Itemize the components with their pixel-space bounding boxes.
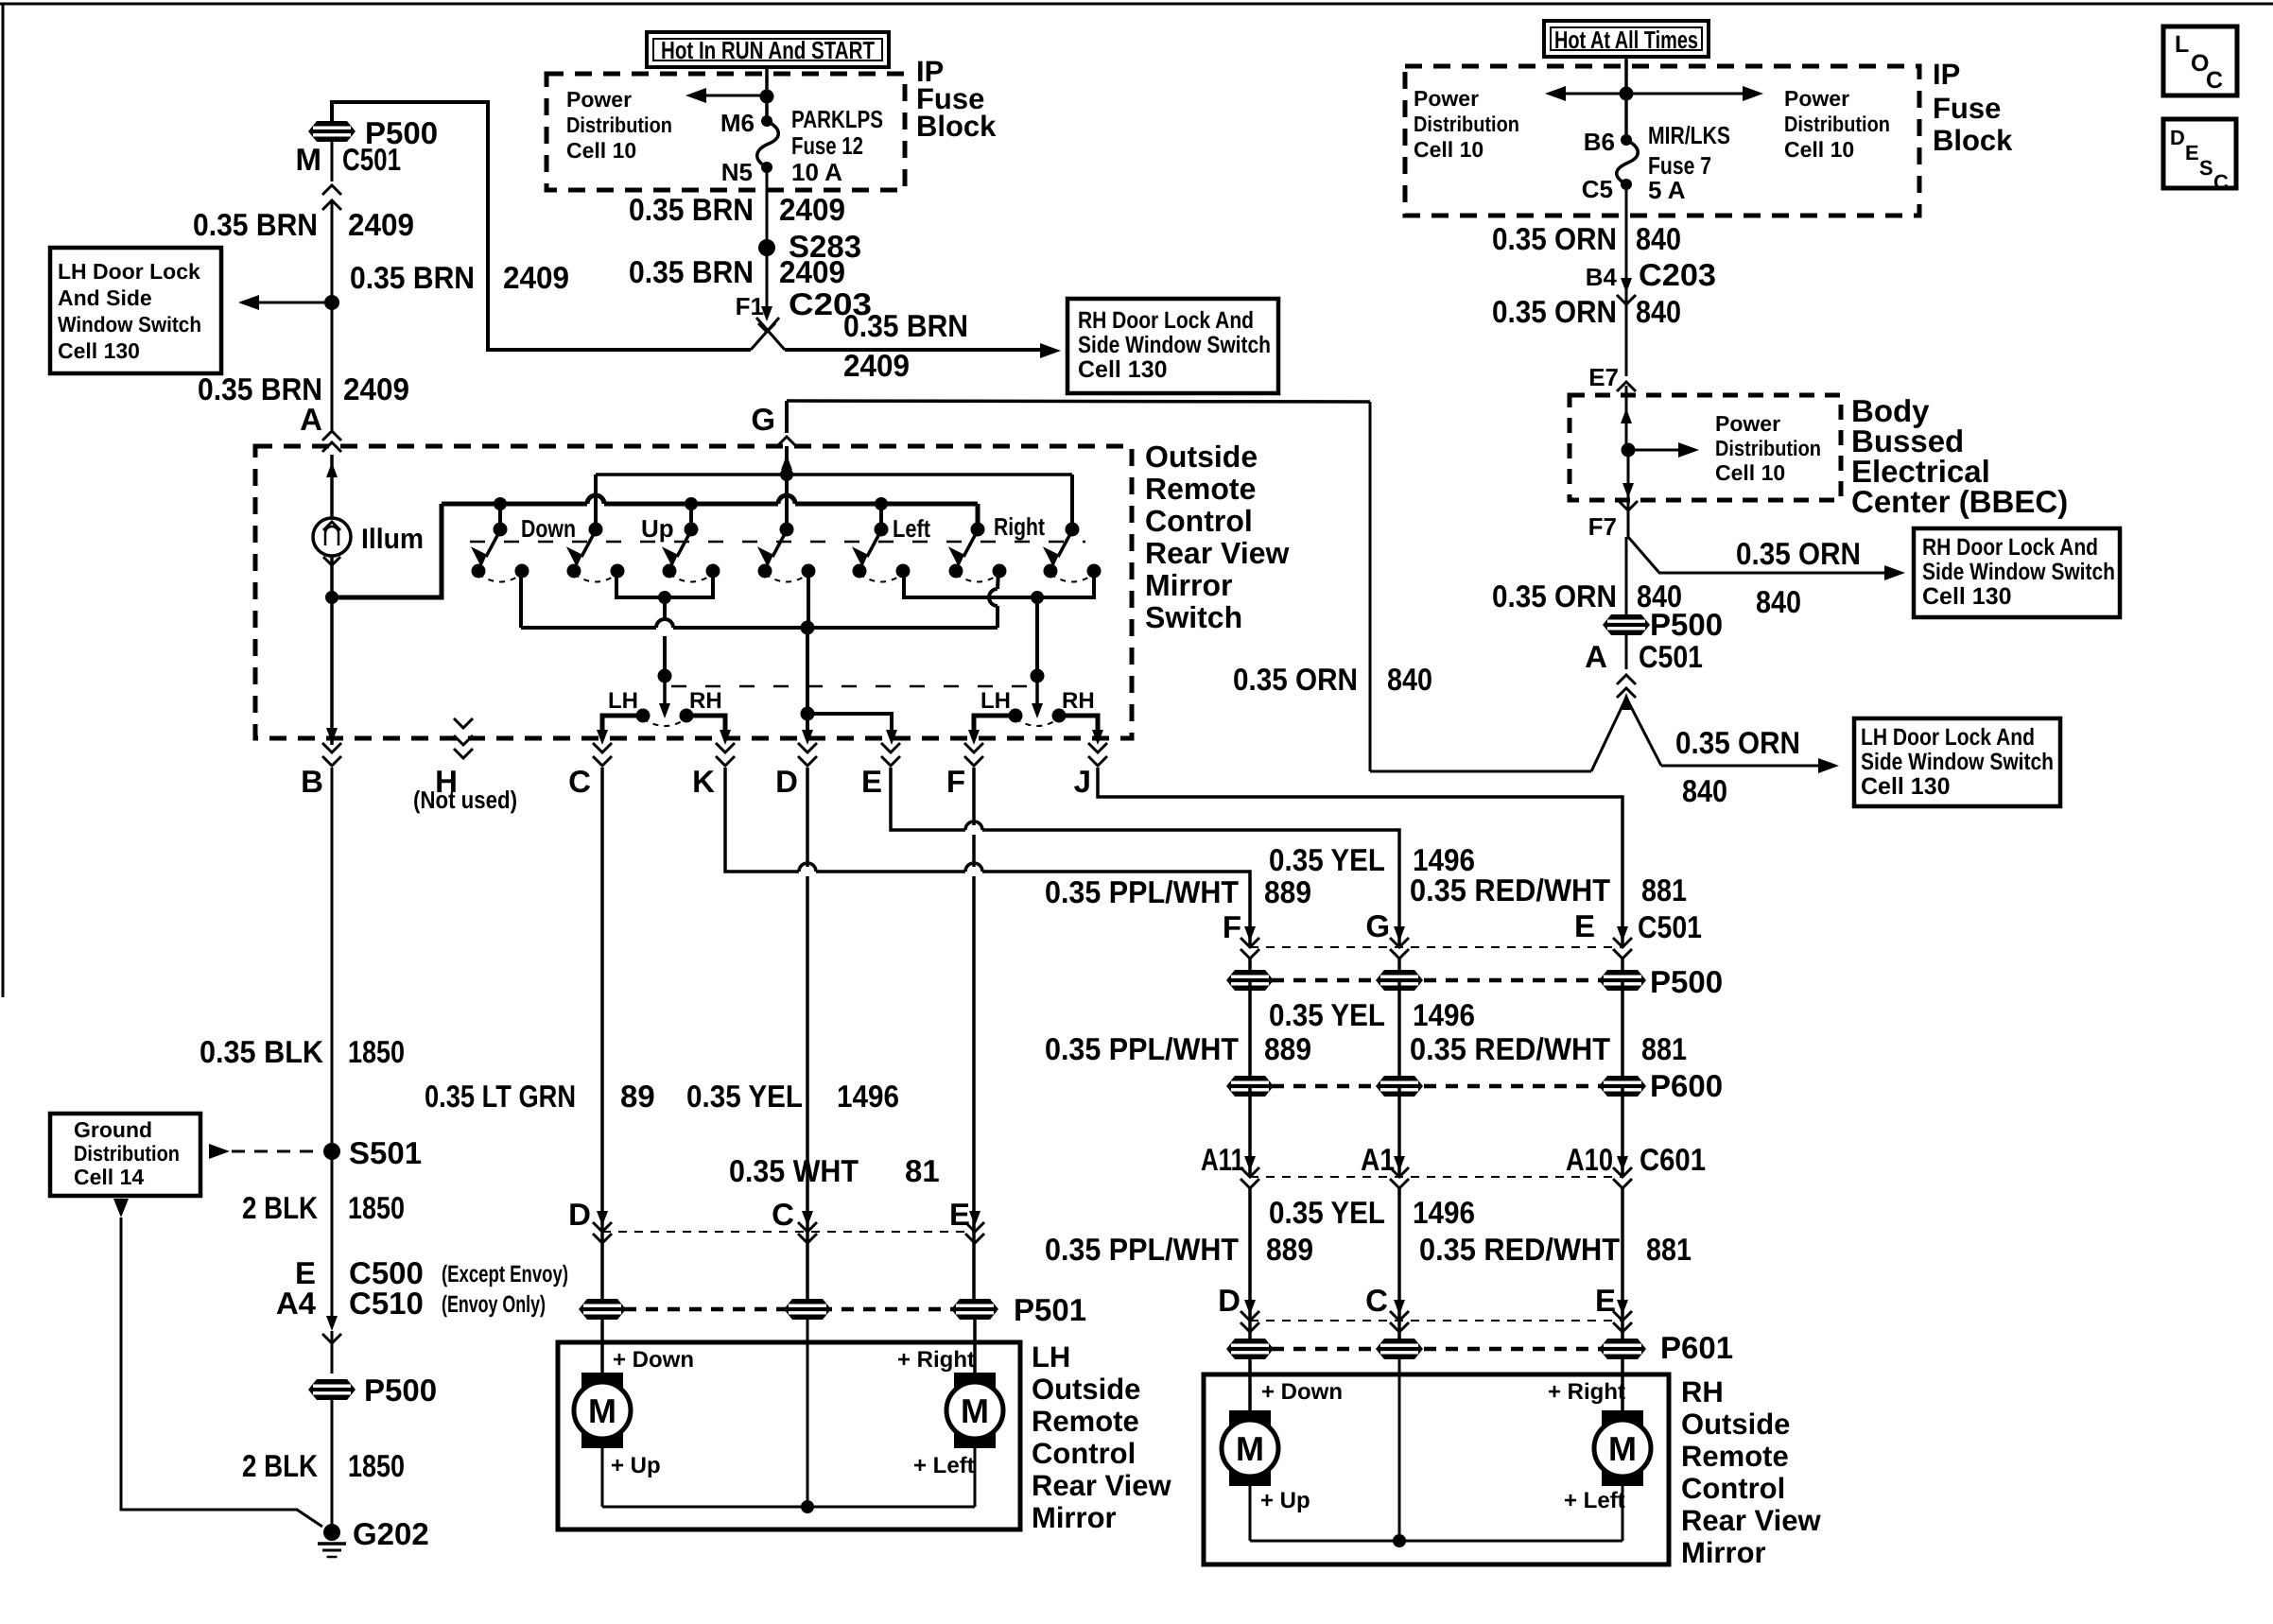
connector P500 (left bottom) <box>308 1379 356 1400</box>
svg-text:M: M <box>1236 1429 1264 1468</box>
svg-text:0.35 YEL: 0.35 YEL <box>1269 842 1385 877</box>
svg-text:F7: F7 <box>1588 512 1617 541</box>
motor M RH vertical <box>1229 1410 1271 1432</box>
svg-text:840: 840 <box>1636 294 1681 329</box>
svg-text:D: D <box>2170 126 2185 149</box>
svg-text:0.35 ORN: 0.35 ORN <box>1233 662 1358 697</box>
hump K-wire over D column <box>799 867 816 876</box>
svg-text:1496: 1496 <box>837 1079 899 1114</box>
svg-text:C203: C203 <box>1639 257 1716 292</box>
wire arrow to Power Distribution in BBEC <box>1628 449 1683 452</box>
hump riser over pairB line <box>989 589 998 606</box>
wire selector LH contact to terminal x=637 <box>602 716 643 739</box>
label box Hot At All Times <box>1544 21 1709 57</box>
svg-text:0.35 PPL/WHT: 0.35 PPL/WHT <box>1045 874 1239 909</box>
wire P601 D into RH motor <box>1248 1356 1252 1410</box>
svg-text:889: 889 <box>1264 874 1311 909</box>
terminal J marks <box>1088 743 1107 752</box>
box LH Outside Remote Control Rear View Mirror <box>558 1342 1020 1529</box>
wire selector LH contact to terminal x=1030 <box>974 716 1015 739</box>
svg-text:Power: Power <box>1414 86 1479 111</box>
node pairB midpoint <box>1031 591 1044 604</box>
svg-text:MIR/LKS: MIR/LKS <box>1648 121 1730 149</box>
svg-text:0.35 LT GRN: 0.35 LT GRN <box>425 1079 576 1114</box>
wire D junction to terminal E <box>807 714 892 739</box>
svg-text:L: L <box>2175 31 2189 58</box>
svg-text:0.35 ORN: 0.35 ORN <box>1675 725 1800 760</box>
wire E terminal to YEL column (G) <box>891 768 1399 947</box>
connector C501 M chevrons <box>322 185 341 195</box>
connector row P601 top (dashed) <box>1250 1320 1622 1322</box>
svg-text:0.35 BRN: 0.35 BRN <box>629 254 754 289</box>
selector contacts x=1097 <box>1009 709 1023 723</box>
svg-text:Cell 10: Cell 10 <box>1715 460 1785 485</box>
svg-text:E: E <box>1574 908 1595 943</box>
switch arm 6 pivot/contacts <box>971 523 985 537</box>
hump E-wire over F column <box>965 825 982 835</box>
box LH Door Lock And Side Window Switch Cell 130 <box>50 248 221 373</box>
page frame top border <box>0 3 2273 6</box>
arrow and dashed wire to S501 <box>209 1144 230 1159</box>
svg-text:2409: 2409 <box>348 207 414 242</box>
wire ORN 840 long horizontal (left leg) <box>1370 770 1591 773</box>
wire Illum junction down to terminal B <box>330 597 334 745</box>
svg-text:G202: G202 <box>353 1516 429 1551</box>
wire crossover to RH door lock switch arrow <box>785 348 1044 352</box>
svg-text:0.35 BRN: 0.35 BRN <box>843 308 968 343</box>
svg-text:2409: 2409 <box>343 371 409 406</box>
svg-text:Ground: Ground <box>74 1117 152 1142</box>
svg-text:Remote: Remote <box>1145 472 1256 506</box>
svg-text:B4: B4 <box>1586 263 1618 291</box>
svg-text:Side Window Switch: Side Window Switch <box>1861 749 2054 775</box>
svg-text:P500: P500 <box>1650 607 1723 642</box>
svg-text:Cell 10: Cell 10 <box>1784 137 1854 162</box>
connector row P600 (dashed) <box>1250 1084 1622 1089</box>
svg-text:And Side: And Side <box>58 285 152 310</box>
bus1 feed bus in switch <box>442 502 978 507</box>
wire P500 to G202 <box>331 1397 334 1526</box>
wire ground distribution return <box>113 1199 129 1218</box>
wire junction down to terminal A <box>331 302 334 431</box>
svg-text:Cell 130: Cell 130 <box>1861 773 1951 800</box>
svg-text:0.35 ORN: 0.35 ORN <box>1492 579 1617 613</box>
svg-text:Rear View: Rear View <box>1681 1504 1822 1537</box>
svg-text:E7: E7 <box>1588 363 1619 391</box>
svg-text:RH Door Lock And: RH Door Lock And <box>1078 307 1254 334</box>
lamp Illum <box>313 518 351 556</box>
svg-text:Distribution: Distribution <box>566 112 672 137</box>
svg-text:E: E <box>861 764 882 799</box>
svg-text:0.35 RED/WHT: 0.35 RED/WHT <box>1410 872 1610 907</box>
svg-text:+ Up: + Up <box>1260 1488 1310 1513</box>
wire arrow to LH Door Lock box <box>257 302 332 304</box>
svg-text:C: C <box>2206 67 2223 94</box>
svg-text:C501: C501 <box>1638 909 1702 944</box>
svg-text:M: M <box>296 142 322 177</box>
svg-text:1850: 1850 <box>348 1034 405 1069</box>
svg-text:RH: RH <box>1062 688 1095 714</box>
svg-text:F: F <box>1223 909 1241 944</box>
svg-text:IP: IP <box>1933 58 1960 91</box>
svg-text:C5: C5 <box>1582 175 1613 203</box>
ground G202 <box>323 1524 340 1541</box>
svg-text:Side Window Switch: Side Window Switch <box>1922 559 2115 585</box>
svg-text:881: 881 <box>1646 1232 1692 1267</box>
wire fuse 12 to C203 <box>766 167 769 318</box>
svg-text:881: 881 <box>1641 872 1687 907</box>
dashed box BBEC <box>1570 395 1841 500</box>
svg-text:E: E <box>2185 141 2199 164</box>
splice S283 <box>758 239 775 256</box>
svg-text:C: C <box>1365 1283 1388 1318</box>
fuse F7 MIR/LKS 5A <box>1621 134 1632 146</box>
terminal E marks <box>881 743 900 752</box>
svg-text:Distribution: Distribution <box>1715 436 1821 460</box>
svg-text:S501: S501 <box>349 1135 422 1170</box>
dashed box Outside Remote Control Rear View Mirror Switch <box>255 446 1132 738</box>
wire D terminal down to P501 C (YEL 1496) <box>806 768 809 1309</box>
svg-text:2409: 2409 <box>843 348 910 383</box>
svg-text:Mirror: Mirror <box>1681 1536 1766 1569</box>
svg-text:0.35 YEL: 0.35 YEL <box>686 1079 803 1114</box>
wire B terminal down to S501 <box>331 768 334 1151</box>
switch arm 3 pivot/contacts <box>689 504 693 529</box>
svg-text:Down: Down <box>521 514 576 543</box>
wire P501 D into motor <box>600 1317 604 1373</box>
svg-text:Outside: Outside <box>1681 1408 1790 1441</box>
wire A into switch box <box>330 455 334 518</box>
wire arm4 drop <box>785 475 789 529</box>
box DESC <box>2163 119 2236 188</box>
svg-text:Mirror: Mirror <box>1032 1501 1117 1534</box>
selector contacts x=703 <box>636 709 651 723</box>
svg-text:RH: RH <box>1681 1375 1724 1408</box>
wire P601 E into RH motor 2 <box>1621 1356 1624 1410</box>
node D wire to E terminal junction <box>801 707 815 721</box>
wire junction to bus1 riser <box>332 504 442 597</box>
svg-text:C: C <box>2213 170 2229 194</box>
motor M RH horizontal <box>1602 1410 1643 1432</box>
svg-text:Outside: Outside <box>1145 440 1258 474</box>
svg-text:Up: Up <box>641 514 674 543</box>
wire RH horizontal motor to bus <box>1622 1486 1624 1541</box>
svg-text:(Not used): (Not used) <box>413 786 517 814</box>
svg-text:LH Door Lock: LH Door Lock <box>58 259 200 284</box>
connector row P501 <box>602 1307 975 1312</box>
connector row P500 (dashed) <box>1250 978 1622 983</box>
IP Fuse Block dashed box 1 <box>547 74 905 190</box>
connector chevron at E7 <box>1617 382 1636 391</box>
svg-text:A4: A4 <box>276 1286 317 1321</box>
svg-text:D: D <box>568 1197 591 1232</box>
svg-text:+ Left: + Left <box>1564 1488 1625 1513</box>
svg-text:LH: LH <box>980 688 1011 714</box>
wire ORN 840 from G corner <box>787 401 1370 402</box>
svg-text:+ Right: + Right <box>897 1347 975 1373</box>
hump bus1 over arm2 wire <box>587 499 604 509</box>
hump K-wire over F column <box>965 867 982 876</box>
wire S501 down to C500 <box>331 1151 334 1319</box>
svg-text:0.35 BRN: 0.35 BRN <box>193 207 318 242</box>
svg-text:(Envoy Only): (Envoy Only) <box>442 1291 546 1318</box>
connector C501 A chevrons <box>1617 675 1636 684</box>
svg-text:A10: A10 <box>1566 1142 1613 1177</box>
svg-text:0.35 ORN: 0.35 ORN <box>1492 221 1617 256</box>
node G junction <box>780 468 793 481</box>
arrow into RH Door Lock box <box>1040 343 1061 358</box>
svg-text:Outside: Outside <box>1032 1373 1140 1406</box>
svg-text:M: M <box>588 1391 616 1430</box>
wire P500 to C501 M <box>331 139 334 181</box>
connector row P601 (dashed) <box>1250 1347 1622 1352</box>
svg-text:Power: Power <box>566 87 632 112</box>
wire arm5/arm7 right contacts join (pairB) <box>904 571 1094 597</box>
svg-text:5 A: 5 A <box>1648 176 1686 204</box>
wire F terminal down to P501 E (WHT 81) <box>972 768 976 1309</box>
svg-text:0.35 ORN: 0.35 ORN <box>1492 294 1617 329</box>
svg-text:J: J <box>1074 764 1091 799</box>
hump bus2 over selector1 feed <box>656 623 673 632</box>
box RH Door Lock And Side Window Switch Cell 130 (2) <box>1914 528 2120 617</box>
svg-text:RH Door Lock And: RH Door Lock And <box>1922 534 2098 561</box>
wire G common line in switch <box>596 473 1072 476</box>
svg-text:P600: P600 <box>1650 1068 1723 1103</box>
svg-text:Fuse: Fuse <box>1933 92 2001 125</box>
svg-text:Rear View: Rear View <box>1145 536 1290 570</box>
connector C203 F1 marks <box>761 306 772 321</box>
svg-text:2409: 2409 <box>503 260 569 295</box>
wire C terminal down to P501 D (LT GRN 89) <box>600 768 604 1309</box>
wire P500 to C501 A <box>1625 632 1628 669</box>
V split at C501 A <box>1620 693 1633 710</box>
wire J terminal to RED/WHT column <box>1098 768 1622 947</box>
svg-text:C501: C501 <box>342 142 401 177</box>
node junction inside BBEC <box>1622 443 1636 458</box>
terminal B marks <box>322 743 341 752</box>
wire arm4 right contact down to terminal D <box>807 571 810 628</box>
svg-text:S: S <box>2199 156 2213 180</box>
svg-text:+ Down: + Down <box>1261 1379 1343 1405</box>
svg-text:Illum: Illum <box>361 524 424 555</box>
wires C601 to P601 row <box>1248 1188 1252 1349</box>
hump bus1 over arm4 wire <box>778 499 795 509</box>
svg-text:0.35 PPL/WHT: 0.35 PPL/WHT <box>1045 1232 1239 1267</box>
switch arm 4 pivot/contacts <box>780 523 794 537</box>
node junction on fuse 7 feed <box>1620 87 1634 101</box>
svg-text:D: D <box>1218 1283 1241 1318</box>
terminal D marks <box>798 743 817 752</box>
box Ground Distribution Cell 14 <box>50 1114 200 1196</box>
svg-text:0.35 BLK: 0.35 BLK <box>200 1034 323 1069</box>
svg-text:Left: Left <box>893 514 930 543</box>
wire F7 down to P500 A <box>1625 537 1628 617</box>
wire P501 C through box to bus <box>807 1317 809 1507</box>
wire G entry corner <box>785 401 789 433</box>
wire C203 to E7 <box>1625 299 1628 376</box>
svg-text:0.35 WHT: 0.35 WHT <box>729 1153 859 1188</box>
svg-text:Rear View: Rear View <box>1032 1469 1172 1502</box>
svg-text:K: K <box>692 764 715 799</box>
svg-text:2409: 2409 <box>779 254 845 289</box>
svg-text:2 BLK: 2 BLK <box>242 1448 318 1483</box>
wire LH horizontal motor to bus <box>974 1448 977 1507</box>
node pairA midpoint <box>658 591 671 604</box>
svg-text:M: M <box>961 1391 989 1430</box>
wire RH vertical motor to bus <box>1249 1486 1252 1541</box>
svg-text:G: G <box>751 402 775 437</box>
terminal K marks <box>716 743 735 752</box>
wire selector RH contact to terminal x=1161 <box>1059 716 1098 739</box>
node junction on fuse 12 feed <box>760 90 774 104</box>
mechanical link dashed (switch arms) <box>470 541 1085 544</box>
wire arm1 right contact to bus2 <box>519 571 523 628</box>
svg-text:PARKLPS: PARKLPS <box>791 105 883 133</box>
svg-text:Control: Control <box>1032 1437 1136 1470</box>
mechanical link dashed (selectors) <box>671 685 1031 688</box>
switch arm 1 pivot/contacts <box>498 504 502 529</box>
svg-text:Distribution: Distribution <box>74 1141 180 1166</box>
svg-text:Cell 130: Cell 130 <box>58 338 140 363</box>
wire RH inner bus <box>1250 1540 1622 1543</box>
svg-text:889: 889 <box>1266 1232 1313 1267</box>
crossover X below C203 <box>751 318 779 350</box>
connector row C500/C510 on motor columns (dashed) <box>602 1231 975 1233</box>
wire arm2 drop <box>594 475 598 529</box>
box RH Door Lock And Side Window Switch Cell 130 <box>1067 299 1278 393</box>
label box Hot In RUN And START <box>647 32 889 67</box>
svg-text:Window Switch: Window Switch <box>58 312 201 337</box>
node junction to LH door lock switch <box>324 295 339 310</box>
svg-text:+ Right: + Right <box>1548 1379 1625 1405</box>
node LH inner bus <box>801 1500 814 1513</box>
page frame left border <box>2 4 5 997</box>
svg-text:Cell 10: Cell 10 <box>566 138 636 163</box>
wire fuse 7 down to C203 B4 <box>1625 184 1628 299</box>
svg-text:A: A <box>300 402 322 437</box>
svg-text:0.35 ORN: 0.35 ORN <box>1736 536 1861 571</box>
svg-text:Power: Power <box>1784 86 1849 111</box>
svg-text:Distribution: Distribution <box>1784 112 1890 136</box>
svg-text:RH: RH <box>689 688 722 714</box>
switch arm 5 pivot/contacts <box>879 504 883 529</box>
wire K terminal to PPL/WHT column (F) <box>725 768 1250 947</box>
svg-text:840: 840 <box>1756 584 1801 619</box>
wire BBEC exit to F7 node <box>1627 450 1630 537</box>
wire LH inner bus <box>602 1506 975 1509</box>
svg-text:F: F <box>946 764 965 799</box>
switch arm 7 pivot/contacts <box>1066 523 1080 537</box>
selector common node x=1097 <box>1031 669 1045 683</box>
svg-text:F1: F1 <box>736 292 764 320</box>
svg-text:0.35 RED/WHT: 0.35 RED/WHT <box>1419 1232 1620 1267</box>
svg-text:P501: P501 <box>1014 1292 1086 1327</box>
IP Fuse Block dashed box 2 <box>1405 66 1919 216</box>
wire left trunk top loop from P500 up and over to crossover <box>332 102 751 350</box>
svg-text:A1: A1 <box>1361 1142 1395 1177</box>
svg-text:0.35 YEL: 0.35 YEL <box>1269 1195 1385 1230</box>
svg-text:P601: P601 <box>1660 1330 1733 1365</box>
motor M LH vertical <box>581 1373 623 1394</box>
svg-text:1850: 1850 <box>348 1190 405 1225</box>
svg-text:1496: 1496 <box>1413 997 1475 1032</box>
terminal C marks <box>593 743 612 752</box>
svg-text:10 A: 10 A <box>791 158 842 186</box>
svg-text:C: C <box>772 1197 794 1232</box>
svg-text:+ Down: + Down <box>613 1347 694 1373</box>
wire right leg to LH Door Lock box 3 <box>1661 765 1820 768</box>
svg-text:2409: 2409 <box>779 192 845 227</box>
svg-text:Hot In RUN And START: Hot In RUN And START <box>661 36 875 64</box>
wire LH vertical motor to bus <box>601 1448 604 1507</box>
connector row C501 (dashed) <box>1250 946 1622 948</box>
svg-text:P500: P500 <box>364 1373 437 1408</box>
svg-text:Center (BBEC): Center (BBEC) <box>1851 484 2068 519</box>
svg-text:Control: Control <box>1145 504 1253 538</box>
svg-text:G: G <box>1365 908 1390 943</box>
svg-text:LH: LH <box>1032 1340 1070 1373</box>
arrow into RH Door Lock box 2 <box>1884 565 1905 580</box>
wire C500 to P500 bottom <box>331 1331 334 1373</box>
connector P500 (left trunk) <box>308 121 356 142</box>
svg-text:Power: Power <box>1715 411 1780 436</box>
node RH inner bus <box>1393 1534 1406 1547</box>
svg-text:2 BLK: 2 BLK <box>242 1190 318 1225</box>
svg-text:M: M <box>1608 1429 1637 1468</box>
wire Hot At All Times to fuse 7 <box>1624 57 1628 140</box>
svg-text:Cell 10: Cell 10 <box>1414 137 1484 162</box>
wire bus2 riser to arm6 right contact <box>996 606 999 628</box>
svg-text:89: 89 <box>620 1079 655 1114</box>
splice S501 <box>323 1143 340 1160</box>
svg-text:N5: N5 <box>721 158 753 186</box>
wire pairB down to selector 2 <box>1035 597 1039 676</box>
terminal F marks <box>964 743 983 752</box>
svg-text:E: E <box>949 1197 970 1232</box>
wire arm2/arm3 right contacts join (pairA) <box>616 571 713 597</box>
svg-text:840: 840 <box>1636 221 1681 256</box>
svg-text:Right: Right <box>994 512 1045 541</box>
svg-text:Remote: Remote <box>1681 1440 1789 1473</box>
box LH Door Lock And Side Window Switch Cell 130 (3) <box>1854 718 2060 806</box>
svg-text:C501: C501 <box>1639 639 1703 674</box>
svg-text:889: 889 <box>1264 1031 1311 1066</box>
svg-text:Block: Block <box>916 110 997 143</box>
wire ORN 840 riser x=1449 <box>1369 402 1372 771</box>
svg-text:Cell 14: Cell 14 <box>74 1165 144 1189</box>
svg-text:0.35 PPL/WHT: 0.35 PPL/WHT <box>1045 1031 1239 1066</box>
wire arm6 drop <box>1070 475 1074 529</box>
fuse F12 PARKLPS 10A <box>761 115 772 127</box>
connector C500/C510 marks <box>326 1316 338 1331</box>
box LOC <box>2163 26 2237 95</box>
wire selector RH contact to terminal x=767 <box>686 716 725 739</box>
svg-text:Mirror: Mirror <box>1145 568 1232 602</box>
selector common node x=703 <box>658 669 672 683</box>
svg-text:Control: Control <box>1681 1472 1785 1505</box>
bus1 right end drop to arm 6 pivot <box>976 504 980 529</box>
connector row C601 (dashed) <box>1250 1176 1622 1178</box>
svg-text:B: B <box>301 764 323 799</box>
box RH Outside Remote Control Rear View Mirror <box>1204 1374 1669 1564</box>
svg-text:M6: M6 <box>720 109 755 137</box>
wires P600 to C601 row <box>1248 1086 1252 1177</box>
svg-text:C510: C510 <box>349 1286 424 1321</box>
switch arm 2 pivot/contacts <box>589 523 603 537</box>
wire P601 C through box to bus <box>1398 1356 1401 1541</box>
connector P500 (right trunk) <box>1603 614 1650 635</box>
svg-text:LH: LH <box>608 688 638 714</box>
